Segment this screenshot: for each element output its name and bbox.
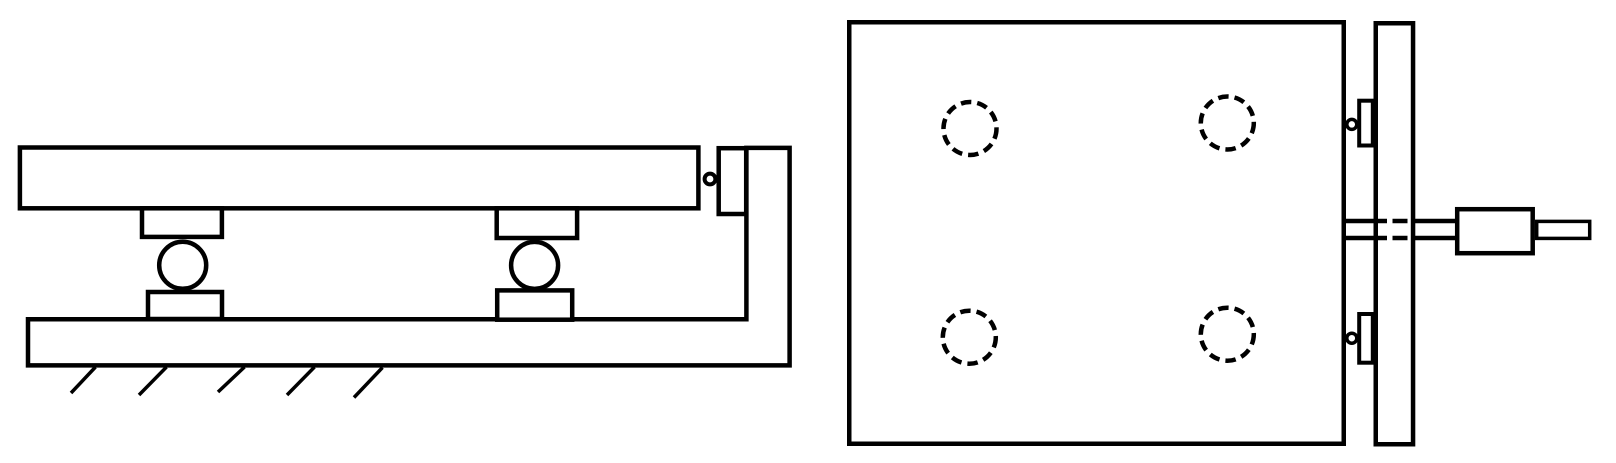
ground hatch 1 [71,367,96,393]
top view: hidden hole circle top-right [1201,97,1254,150]
top view: screw shaft lower segment (right of plate) [1413,236,1456,241]
side view: bearing 2 upper pad [497,208,577,238]
top view: guide ball top [1347,119,1357,129]
top view: guide block top [1359,101,1373,146]
top view: screw shaft upper segment (left of plate) [1342,219,1387,224]
side view: moving top plate [20,148,699,209]
side view: end block on top plate [719,148,747,214]
top view: hidden hole circle top-left [944,102,997,155]
side view: bearing 1 upper pad [142,208,222,237]
top view: screw shaft hidden dash upper [1393,219,1408,224]
top view: stage plate (big square) [849,22,1344,444]
top view: end support plate (vertical bar) [1376,23,1413,444]
side view: bearing 2 lower pad [497,290,572,319]
top view: screw shaft upper segment (right of plate) [1413,219,1456,224]
side view: bearing 1 lower pad [148,292,222,319]
ground hatch 2 [139,367,167,395]
top view: guide ball bottom [1347,333,1357,343]
side view: bearing 2 ball [511,242,558,289]
top view: screw shaft lower segment (left of plate) [1342,236,1387,241]
side view: base plate with upright arm (one polygon) [28,148,790,366]
top view: screw shaft hidden dash lower [1393,236,1408,241]
ground hatch 4 [287,367,315,395]
top view: knob stem rod [1537,221,1590,238]
side view: screw contact ball [705,174,716,185]
top view: guide block bottom [1359,314,1373,363]
top view: hidden hole circle bottom-right [1201,308,1254,361]
ground hatch 5 [354,368,383,398]
top view: hidden hole circle bottom-left [943,311,996,364]
ground hatch 3 [218,367,245,392]
top view: knob body [1457,209,1533,253]
side view: bearing 1 ball [159,242,206,289]
